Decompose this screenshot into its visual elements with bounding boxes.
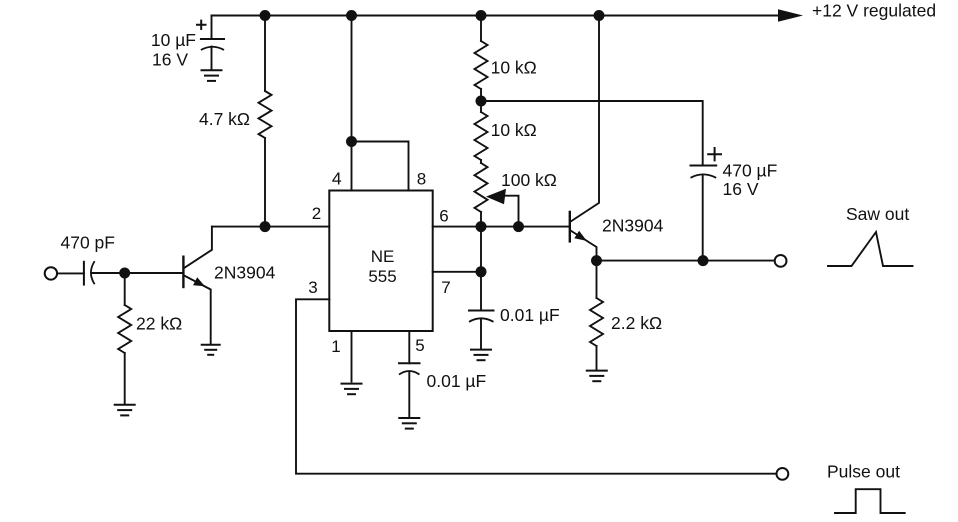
pin label 4 (332, 169, 342, 189)
value label 100 kOhm (501, 170, 557, 190)
wire pin 8 link (352, 142, 409, 191)
icon saw waveform (828, 232, 913, 266)
value label 10 kOhm (R4) (491, 120, 537, 140)
arrow VR1 wiper (486, 189, 506, 204)
svg-text:1: 1 (331, 337, 340, 356)
resistor R5 2.2 kOhm (590, 261, 603, 370)
pulse out terminal (777, 468, 789, 480)
transistor Q1 emitter arrow (193, 277, 205, 286)
capacitor C3 0.01 uF (pin 5) (399, 363, 420, 374)
resistor R3 10 kOhm (475, 41, 488, 89)
wire Q2 collector to rail (571, 16, 600, 222)
svg-text:100 kΩ: 100 kΩ (501, 170, 557, 190)
svg-text:470 µF: 470 µF (723, 161, 778, 181)
wire VR1 to pin6 node (480, 212, 482, 227)
svg-text:2.2 kΩ: 2.2 kΩ (611, 313, 662, 333)
svg-text:16 V: 16 V (152, 50, 188, 70)
svg-text:Saw out: Saw out (846, 204, 909, 224)
svg-text:6: 6 (439, 207, 448, 226)
value label 10 kOhm (R3) (491, 57, 537, 77)
capacitor C5 470 uF plus sign (708, 148, 721, 160)
resistor R4 10 kOhm (475, 112, 488, 160)
wire C2 to Q1 base (92, 272, 184, 274)
junction dot divider mid (476, 96, 487, 107)
wire 555 pin 6 to Q2 base (433, 226, 570, 228)
transistor Q1 emitter (184, 276, 210, 345)
svg-text:2N3904: 2N3904 (602, 216, 664, 236)
pin label 3 (308, 278, 317, 297)
ground (C4) (470, 350, 492, 361)
junction dot input node (119, 268, 130, 279)
icon pulse waveform (835, 489, 905, 513)
ground (pin 1) (341, 384, 363, 395)
svg-text:NE: NE (371, 247, 395, 266)
op-amp/IC U1 NE555 body (329, 191, 432, 332)
net label Pulse out (827, 462, 900, 482)
wire pin 3 to pulse out (296, 299, 775, 473)
wire rail to R3 (480, 16, 482, 42)
svg-text:5: 5 (415, 336, 424, 355)
potentiometer VR1 100 kOhm body (475, 163, 488, 212)
transistor Q2 base bar (569, 211, 571, 243)
svg-text:4: 4 (332, 169, 342, 189)
capacitor C2 470 pF (84, 261, 95, 284)
pin label 8 (417, 170, 426, 189)
saw out terminal (775, 255, 787, 267)
wire R4 to VR1 (480, 160, 482, 163)
capacitor C5 470 uF 16 V (691, 166, 717, 178)
wire R1 to pin2 node (264, 138, 266, 227)
svg-text:3: 3 (308, 278, 317, 297)
value label 2.2 kOhm (611, 313, 662, 333)
svg-text:10 kΩ: 10 kΩ (491, 57, 537, 77)
pin label 5 (415, 336, 424, 355)
junction dot rail / 4.7k (260, 10, 271, 21)
wire saw out (597, 260, 774, 262)
junction dot pin 7 (476, 266, 487, 277)
value label 4.7 kOhm (199, 109, 250, 129)
transistor Q1 collector (184, 227, 212, 269)
value label 470 pF (61, 233, 115, 253)
wire pin 4 stub (351, 142, 353, 191)
wire C3 to ground (408, 372, 410, 418)
value label 0.01 uF (pin 7) (500, 305, 560, 325)
part label Q2 2N3904 (602, 216, 664, 236)
capacitor C4 0.01 uF (pin 7) (469, 311, 494, 322)
svg-text:10 µF: 10 µF (151, 30, 196, 50)
svg-text:2: 2 (312, 204, 321, 223)
pin label 1 (331, 337, 340, 356)
svg-text:+12 V regulated: +12 V regulated (812, 0, 936, 20)
wire pin 1 to ground (351, 331, 353, 382)
wire rail to R1 (264, 16, 266, 92)
junction dot rail / Q2 collector (594, 10, 605, 21)
wire C4 to ground (480, 319, 482, 349)
ground (Q1 emitter) (201, 345, 221, 355)
part label Q1 2N3904 (214, 263, 276, 283)
capacitor C1 10 uF plus sign (197, 21, 206, 29)
wire pin6 node to pin7 node to C4 (480, 227, 482, 311)
ground (C3) (398, 418, 420, 429)
junction dot Q2 emitter (591, 255, 602, 266)
svg-text:4.7 kΩ: 4.7 kΩ (199, 109, 250, 129)
svg-text:10 kΩ: 10 kΩ (491, 120, 537, 140)
junction dot wiper (513, 221, 524, 232)
svg-text:2N3904: 2N3904 (214, 263, 276, 283)
wire Q1 collector to 555 pin 2 (212, 226, 329, 228)
svg-text:Pulse out: Pulse out (827, 462, 900, 482)
value label 470 uF (723, 161, 778, 181)
IC label NE 555 (368, 247, 396, 286)
resistor R1 4.7 kOhm (259, 91, 272, 138)
transistor Q2 emitter (571, 231, 597, 261)
ground (C1) (201, 70, 223, 81)
wire C5 to saw node (702, 175, 704, 261)
svg-text:7: 7 (441, 278, 450, 297)
junction dot pins 4-8 (346, 136, 357, 147)
value label 16 V (C1) (152, 50, 188, 70)
value label 10 uF (151, 30, 196, 50)
junction dot rail / 10k divider (476, 10, 487, 21)
transistor Q2 emitter arrow (574, 231, 587, 241)
svg-text:555: 555 (368, 267, 396, 286)
ground (R5) (586, 371, 608, 382)
svg-text:0.01 µF: 0.01 µF (427, 371, 487, 391)
wire pin 5 to C3 (408, 331, 410, 363)
wire pin 7 node (433, 271, 481, 273)
wire rail to pins 4-8 (351, 16, 353, 142)
wire input to C2 (58, 272, 84, 274)
pin label 6 (439, 207, 448, 226)
resistor R2 22 kOhm (118, 273, 131, 405)
svg-text:16 V: 16 V (723, 179, 759, 199)
wire VR1 wiper (505, 196, 519, 227)
arrow to +12 V regulated (778, 9, 803, 22)
junction dot rail / pins 4-8 (346, 10, 357, 21)
svg-text:22 kΩ: 22 kΩ (136, 313, 182, 333)
capacitor C1 10 uF 16 V (201, 39, 224, 50)
pin label 2 (312, 204, 321, 223)
transistor Q1 base bar (182, 256, 184, 289)
junction dot C5 / saw (698, 255, 709, 266)
svg-text:0.01 µF: 0.01 µF (500, 305, 560, 325)
net label +12 V regulated (812, 0, 936, 20)
net label Saw out (846, 204, 909, 224)
junction dot pin6/VR1 (476, 221, 487, 232)
wire C1 to ground (211, 47, 213, 71)
value label 22 kOhm (136, 313, 182, 333)
value label 0.01 uF (pin 5) (427, 371, 487, 391)
svg-text:470 pF: 470 pF (61, 233, 115, 253)
ground (R2) (114, 405, 136, 416)
wire R3 to R4 (480, 89, 482, 112)
value label 16 V (C5) (723, 179, 759, 199)
svg-text:8: 8 (417, 170, 426, 189)
wire +12V rail (212, 15, 784, 17)
junction dot pin2/R1/Q1 collector (260, 221, 271, 232)
input terminal (45, 267, 57, 279)
wire rail to C1 (211, 16, 213, 40)
wire divider mid to C5 (481, 101, 703, 165)
pin label 7 (441, 278, 450, 297)
